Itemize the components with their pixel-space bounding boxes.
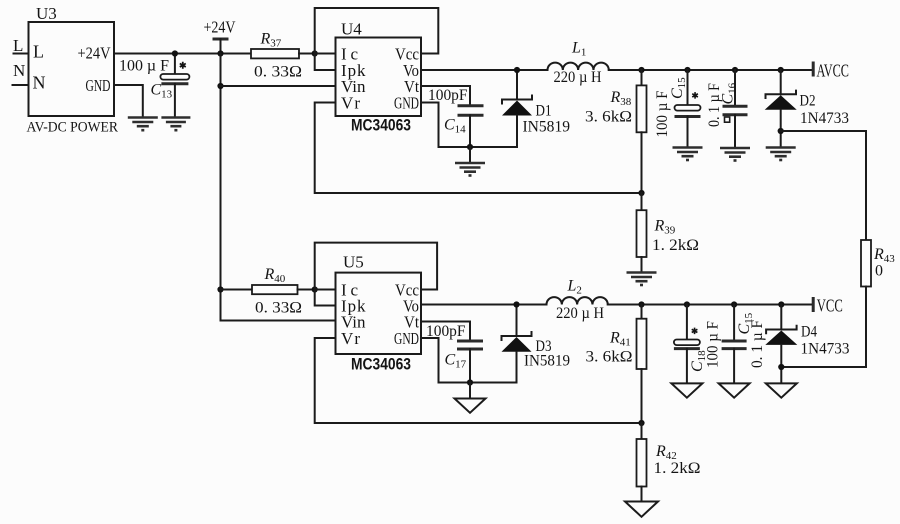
svg-text:AV-DC POWER: AV-DC POWER — [27, 120, 119, 136]
svg-text:U3: U3 — [36, 4, 57, 23]
svg-text:100 µ F: 100 µ F — [705, 321, 722, 368]
wire node to ground — [469, 147, 471, 162]
wire U3 GND to ground — [114, 85, 143, 117]
inductor L2 220uH — [547, 297, 608, 304]
svg-text:GND: GND — [86, 76, 111, 95]
wire to U4 Vin — [221, 85, 336, 87]
ground triangle (C15b) — [719, 383, 750, 397]
svg-text:N: N — [13, 61, 25, 80]
wire L stub — [14, 53, 29, 55]
resistor R42 1.2k — [637, 423, 647, 501]
wire +24V rail from U3 to R37 — [114, 53, 251, 55]
ground triangle (D4) — [766, 383, 797, 397]
svg-text:1N4733: 1N4733 — [800, 110, 849, 127]
svg-text:U4: U4 — [341, 20, 362, 39]
wire U4 GND drop — [421, 103, 439, 148]
node Vin U4 branch — [217, 83, 223, 89]
wire Ic stub U5 — [315, 289, 336, 291]
svg-text:3. 6kΩ: 3. 6kΩ — [586, 349, 633, 366]
svg-text:220 µ H: 220 µ H — [554, 69, 602, 86]
ground (U3 GND) — [128, 118, 158, 131]
svg-text:IN5819: IN5819 — [524, 353, 570, 370]
svg-text:+24V: +24V — [78, 44, 112, 63]
svg-text:✱: ✱ — [691, 326, 699, 336]
svg-text:GND: GND — [394, 329, 419, 348]
ground (C14 node) — [455, 163, 485, 176]
wire VCC rail — [608, 304, 813, 306]
node C16 on rail — [732, 67, 738, 73]
node D2 anode / R43 wire — [778, 128, 784, 134]
wire Vr feedback U5 — [315, 338, 642, 423]
zener diode D4 1N4733 — [765, 305, 797, 383]
node C18 on rail — [684, 301, 690, 307]
svg-text:0. 33Ω: 0. 33Ω — [254, 64, 302, 81]
ground (C16) — [720, 148, 750, 161]
wire C17 bottom node — [439, 382, 517, 384]
svg-text:0: 0 — [875, 263, 883, 280]
svg-text:220 µ H: 220 µ H — [556, 305, 604, 322]
node C13 on +24V rail — [172, 50, 178, 56]
ground (C15) — [673, 148, 703, 161]
node C14/ground junction — [467, 144, 473, 150]
node +24V on rail — [217, 50, 223, 56]
node D4 anode / R43 wire — [778, 364, 784, 370]
svg-text:+24V: +24V — [204, 18, 237, 37]
svg-text:✱: ✱ — [692, 91, 700, 101]
wire C14 bottom node — [439, 146, 518, 148]
wire +24V vertical distribution — [221, 54, 336, 321]
node R38 on rail — [638, 67, 644, 73]
svg-text:100 µ F: 100 µ F — [119, 58, 169, 75]
capacitor C13 100uF — [160, 54, 189, 117]
node D1 on Vo rail — [514, 67, 520, 73]
capacitor C15b 0.1uF — [722, 305, 747, 383]
ground (D2) — [766, 148, 796, 161]
capacitor C15 100uF — [675, 70, 701, 147]
terminal AVCC — [813, 61, 849, 81]
wire Vt to C14 — [421, 86, 470, 105]
svg-text:1. 2kΩ: 1. 2kΩ — [654, 460, 701, 477]
svg-text:Vr: Vr — [341, 329, 360, 348]
svg-text:✱: ✱ — [179, 61, 187, 71]
node C15 on rail — [684, 67, 690, 73]
svg-text:1N4733: 1N4733 — [801, 341, 850, 358]
svg-text:U5: U5 — [343, 253, 364, 272]
svg-text:D1: D1 — [536, 103, 552, 120]
node D3 on Vo rail — [513, 301, 519, 307]
svg-text:100 µ F: 100 µ F — [654, 90, 671, 137]
capacitor C14 100pF — [458, 106, 484, 147]
resistor R38 3.6k — [637, 70, 647, 193]
svg-text:0. 33Ω: 0. 33Ω — [255, 300, 302, 317]
wire Vr feedback U4 — [315, 103, 642, 194]
wire Vcc bootstrap loop U4 — [315, 8, 439, 54]
svg-text:100pF: 100pF — [428, 87, 468, 104]
ground triangle (R42) — [625, 502, 658, 517]
svg-text:N: N — [33, 73, 46, 93]
diode D3 IN5819 — [502, 305, 532, 383]
wire Ipk stub U5 — [315, 290, 336, 306]
node R41/R42/feedback junction — [638, 420, 644, 426]
capacitor C17 100pF — [457, 341, 483, 383]
zener diode D2 1N4733 — [765, 70, 797, 147]
node R40 input junction — [217, 286, 223, 292]
op-amp U4 MC34063 — [336, 20, 422, 117]
capacitor C16 0.1uF — [723, 70, 748, 147]
resistor R43 0ohm — [781, 240, 871, 367]
svg-text:D2: D2 — [800, 93, 816, 110]
svg-text:0. 1 µ F: 0. 1 µ F — [749, 320, 766, 368]
wire Vcc bootstrap loop U5 — [315, 243, 437, 290]
node D2 on rail — [778, 67, 784, 73]
svg-text:GND: GND — [394, 94, 419, 113]
node C15b on rail — [731, 301, 737, 307]
svg-text:1. 2kΩ: 1. 2kΩ — [652, 237, 699, 254]
terminal VCC — [813, 296, 843, 316]
svg-text:D4: D4 — [801, 324, 817, 341]
svg-text:MC34063: MC34063 — [351, 117, 411, 135]
node R41 on rail — [638, 301, 644, 307]
wire U5 GND drop — [421, 338, 439, 383]
node D4 on rail — [778, 301, 784, 307]
wire Vo rail U5 — [421, 304, 547, 306]
svg-text:3. 6kΩ: 3. 6kΩ — [585, 109, 632, 126]
svg-text:0. 1 µ F: 0. 1 µ F — [706, 83, 723, 127]
node R40 output / Ic / Vcc loop — [312, 286, 318, 292]
wire Ic stub U4 — [315, 53, 336, 55]
wire D2 anode to R43 — [781, 131, 866, 240]
power module U3 — [29, 4, 115, 116]
svg-text:L: L — [33, 42, 44, 62]
diode D1 IN5819 — [502, 70, 532, 147]
svg-text:VCC: VCC — [817, 296, 843, 316]
capacitor C18 100uF — [674, 305, 700, 383]
node R38/R39/feedback junction — [638, 190, 644, 196]
svg-text:IN5819: IN5819 — [523, 119, 571, 136]
wire N stub — [13, 84, 29, 86]
svg-text:AVCC: AVCC — [817, 61, 850, 81]
resistor R37 0.33ohm — [251, 49, 336, 58]
op-amp U5 MC34063 — [336, 253, 422, 355]
svg-text:L: L — [13, 36, 23, 55]
ground (C13) — [161, 118, 190, 131]
svg-text:MC34063: MC34063 — [351, 356, 411, 374]
wire node to ground stub — [469, 383, 471, 399]
ground (R39) — [627, 273, 657, 286]
node R37 output / Ic / Vcc loop — [312, 50, 318, 56]
resistor R40 0.33ohm — [221, 285, 336, 294]
resistor R39 1.2k — [637, 193, 647, 272]
resistor R41 3.6k — [637, 305, 647, 424]
node C17/ground junction — [467, 379, 473, 385]
wire Ipk stub U4 — [315, 54, 336, 71]
wire AVCC rail — [609, 69, 813, 71]
power symbol +24V — [204, 18, 237, 54]
ground triangle (C17 node) — [455, 399, 486, 413]
wire Vt to C17 — [421, 322, 470, 341]
ground triangle (C18) — [671, 383, 702, 397]
svg-text:Vr: Vr — [341, 94, 360, 113]
inductor L1 220uH — [548, 63, 609, 70]
wire Vo rail U4 — [421, 69, 548, 71]
